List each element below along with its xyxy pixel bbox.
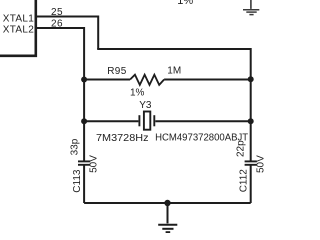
wire C113 bottom plate to bottom rail xyxy=(83,165,85,203)
node: crystal Y3 right junction xyxy=(248,118,254,124)
svg-text:50V: 50V xyxy=(256,155,267,173)
node: crystal Y3 left junction xyxy=(81,118,87,124)
IC U1 body (microcontroller, cropped at left) xyxy=(0,0,36,56)
svg-text:XTAL2: XTAL2 xyxy=(3,24,34,35)
capacitor C112 xyxy=(245,161,257,164)
wire XTAL2 pin 26 horizontal xyxy=(37,27,84,29)
svg-text:1M: 1M xyxy=(167,66,181,77)
wire right rail: top corner to R95 junction xyxy=(250,48,252,80)
ground (bottom) xyxy=(158,203,177,232)
resistor R95 right lead xyxy=(164,79,251,81)
resistor R95 zigzag body xyxy=(130,75,164,85)
wire left rail: pin 26 to R95 junction xyxy=(83,27,85,80)
svg-text:1%: 1% xyxy=(177,0,193,7)
wire C112 bottom plate to bottom rail xyxy=(250,165,252,203)
wire right rail: R95 junction to Y3 junction xyxy=(250,80,252,122)
svg-text:1%: 1% xyxy=(130,87,145,98)
svg-text:XTAL1: XTAL1 xyxy=(3,13,34,24)
node: ground junction on bottom rail xyxy=(164,200,170,206)
wire right rail: Y3 junction to C112 top plate xyxy=(250,121,252,160)
wire left rail: Y3 junction to C113 top plate xyxy=(83,121,85,160)
wire bottom rail xyxy=(84,202,251,204)
wire top rail to right rail xyxy=(97,48,251,50)
svg-text:50V: 50V xyxy=(89,155,100,173)
svg-text:HCM497372800ABJT: HCM497372800ABJT xyxy=(155,132,248,143)
svg-text:R95: R95 xyxy=(107,66,127,77)
capacitor C113 xyxy=(78,161,90,164)
ground (top right, net cropped above) xyxy=(243,0,259,15)
node: XTAL2 / R95 / C113 junction xyxy=(81,77,87,83)
wire left rail: R95 junction to Y3 junction xyxy=(83,80,85,122)
crystal Y3 xyxy=(139,112,154,130)
crystal Y3 right lead xyxy=(155,120,250,122)
svg-text:22p: 22p xyxy=(235,140,246,157)
svg-text:Y3: Y3 xyxy=(139,100,152,111)
node: R95 right junction xyxy=(248,76,254,82)
svg-text:C113: C113 xyxy=(72,169,83,193)
resistor R95 left lead xyxy=(84,79,130,81)
svg-text:C112: C112 xyxy=(239,169,250,193)
svg-text:33p: 33p xyxy=(69,138,80,155)
svg-text:7M3728Hz: 7M3728Hz xyxy=(96,133,149,144)
wire XTAL1 pin 25 horizontal xyxy=(37,16,98,18)
wire pin 25 vertical drop xyxy=(97,16,99,50)
crystal Y3 left lead xyxy=(84,120,138,122)
